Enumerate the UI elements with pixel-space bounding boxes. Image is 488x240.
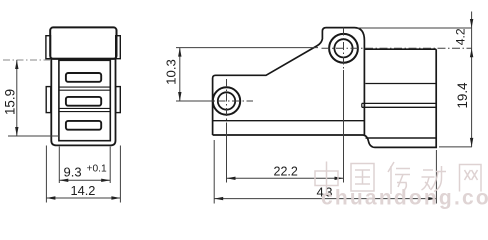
lower hole outer circle	[213, 87, 240, 114]
dim 10.3 arrow up	[178, 48, 181, 57]
dim 9.3 ext right	[109, 147, 111, 184]
svg-text:14.2: 14.2	[71, 183, 96, 198]
svg-text:+0.1: +0.1	[87, 164, 107, 175]
watermark char 动	[422, 166, 447, 192]
watermark char 网	[460, 165, 482, 192]
dim 10.3 bottom leader	[176, 100, 213, 102]
dim 10.3 top leader	[176, 47, 318, 49]
shared vertical dimension line	[471, 12, 473, 147]
ear tab top-right	[116, 36, 121, 59]
ear tab top-left	[46, 36, 51, 59]
dim 19.4 arrow down	[470, 138, 473, 147]
divider line 1b	[59, 89, 110, 91]
ear tab bottom-left	[46, 87, 51, 113]
upper hole inner circle	[334, 39, 352, 57]
slot 1	[66, 73, 101, 82]
dim 14.2 ext right	[119, 146, 121, 203]
svg-text:9.3: 9.3	[64, 165, 82, 180]
dim 15.9 line	[16, 60, 18, 136]
svg-text:10.3: 10.3	[163, 59, 178, 85]
dim 10.3 arrow down	[178, 92, 181, 101]
lower hole centerline vertical	[226, 79, 228, 126]
dim 15.9 top reference (dash-dot)	[3, 59, 50, 61]
watermark char 国	[351, 164, 374, 192]
terminal stack bottom edge	[366, 137, 437, 139]
dim 43 arrow left	[214, 197, 223, 200]
dim 4.2 arrow down (above top ref)	[470, 19, 473, 28]
dim 9.3 arrow left	[59, 179, 68, 182]
dim 14.2 arrow left	[46, 196, 55, 199]
dim 43 line	[214, 198, 436, 200]
dim 15.9 bottom leader	[8, 135, 59, 137]
upper hole centerline vertical	[343, 28, 345, 71]
svg-text:15.9: 15.9	[3, 89, 18, 115]
dim 22.2 line	[227, 177, 344, 179]
stack tab edge	[361, 103, 363, 107]
dim 15.9 arrow up	[15, 60, 18, 69]
watermark char 中	[315, 162, 338, 195]
terminal stack top edge	[364, 48, 436, 50]
dim 14.2 arrow right	[111, 196, 120, 199]
svg-text:19.4: 19.4	[455, 82, 470, 109]
dim 43 ext left	[213, 140, 215, 204]
dim 9.3 arrow right	[101, 179, 110, 182]
dim 9.3 ext left	[58, 147, 60, 184]
dim 22.2 arrow right	[335, 177, 344, 180]
watermark char 传	[388, 162, 410, 194]
upper hole outer circle	[329, 34, 358, 63]
upper hole centerline horizontal	[322, 47, 472, 49]
lower hole inner circle	[218, 92, 235, 109]
dim 43 ext right	[435, 150, 437, 204]
dim 4.2 top reference ext	[357, 27, 472, 29]
svg-text:22.2: 22.2	[274, 165, 298, 179]
inner frame	[59, 60, 110, 140]
dim 22.2 arrow left	[227, 177, 236, 180]
lower centerline extension down to 22.2 dim	[226, 126, 228, 183]
dim 10.3 line	[179, 48, 181, 101]
cap (top housing)	[50, 27, 116, 58]
lower hole centerline horizontal	[203, 100, 253, 102]
body outline	[51, 59, 115, 146]
divider line 1a	[59, 86, 110, 88]
slot 2	[66, 97, 101, 106]
svg-text:chuandong.com: chuandong.com	[321, 187, 488, 210]
ear tab bottom-right	[116, 87, 121, 113]
side bottom edge with step to lip	[213, 49, 437, 147]
dim 9.3 line	[59, 179, 110, 181]
slot 3	[66, 121, 101, 130]
divider line 2a	[59, 107, 110, 109]
dim 14.2 ext left	[45, 146, 47, 203]
terminal stack double line a	[362, 102, 436, 104]
dim 14.2 line	[46, 197, 120, 199]
divider line 2b	[59, 111, 110, 113]
dim 15.9 arrow down	[15, 127, 18, 136]
terminal stack double line b	[362, 106, 436, 108]
dim 19.4 bottom reference ext	[439, 146, 472, 148]
side outline: left edge, top edge, diagonal, boss	[213, 28, 365, 136]
dim 43 arrow right	[427, 197, 436, 200]
dim 19.4 arrow up	[470, 48, 473, 57]
internal shelf line	[213, 120, 365, 122]
svg-text:4.2: 4.2	[454, 28, 468, 45]
centerline extension down to 22.2 dim	[343, 70, 345, 183]
terminal stack line 1	[365, 83, 436, 85]
